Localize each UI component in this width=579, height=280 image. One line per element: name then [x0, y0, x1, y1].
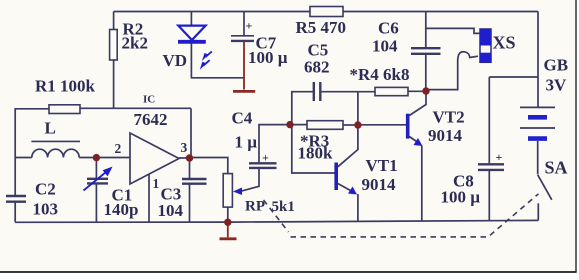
transistor VT1 emitter: [338, 184, 354, 193]
wire VT2 base: [358, 124, 406, 126]
white margin right of border: [577, 0, 579, 280]
white margin below border: [0, 273, 579, 280]
svg-text:1: 1: [153, 176, 160, 191]
wire R3 right lead: [343, 124, 358, 126]
wire VD top lead: [190, 12, 192, 26]
resistor R5 body: [310, 7, 343, 17]
svg-text:+: +: [496, 150, 503, 164]
wire C4 bottom lead to RP wiper: [241, 168, 259, 191]
wire switch bottom contact: [537, 203, 539, 220]
svg-text:7642: 7642: [134, 110, 168, 129]
svg-text:VD: VD: [163, 51, 188, 70]
svg-text:682: 682: [304, 58, 330, 77]
capacitor C1 variable arrow: [84, 168, 112, 191]
wire C1 top lead: [95, 158, 97, 179]
capacitor C8 plates: [478, 164, 504, 170]
wire top rail: [114, 11, 538, 13]
svg-text:VT1: VT1: [366, 156, 398, 175]
switch SA blade: [538, 175, 552, 200]
svg-text:R1 100k: R1 100k: [35, 77, 96, 96]
wire pin 1 down to ground rail: [148, 175, 150, 223]
wire battery bottom lead to switch: [537, 141, 539, 174]
wire R4 right lead: [408, 90, 426, 92]
resistor R4 body: [375, 87, 408, 95]
wire to XS jack top: [426, 28, 480, 33]
junction node D (R4/C6/VT2 collector/XS): [422, 87, 429, 94]
svg-text:C4: C4: [232, 109, 253, 128]
wire C6 bottom lead: [425, 54, 427, 91]
svg-text:L: L: [45, 119, 56, 138]
wire VT1 emitter down to rail: [357, 194, 359, 222]
wire C7 top lead: [243, 12, 245, 36]
svg-text:100 µ: 100 µ: [248, 48, 288, 67]
wire C8 top corner to battery line: [489, 76, 538, 78]
inductor L coil: [32, 149, 79, 157]
battery GB thick bars: [528, 117, 547, 138]
capacitor C2 plates: [6, 196, 26, 202]
transistor VT2 emitter: [409, 137, 419, 144]
svg-text:5k1: 5k1: [272, 199, 295, 215]
svg-text:IC: IC: [143, 94, 155, 106]
wire inductor branch left: [15, 157, 32, 159]
wire XS tip contact: [427, 52, 478, 90]
svg-text:GB: GB: [544, 56, 569, 75]
wire C6 top lead from rail: [425, 12, 427, 49]
wire left rail below C2: [14, 202, 16, 223]
svg-text:9014: 9014: [428, 126, 463, 145]
wire C1 bottom lead: [95, 183, 97, 222]
svg-text:1 µ: 1 µ: [235, 133, 258, 152]
wire R1 right lead: [80, 107, 114, 109]
junction node output pin3: [186, 154, 193, 161]
wire C8 bottom lead: [488, 170, 490, 221]
op-amp U1 triangle: [130, 133, 179, 184]
potentiometer RP body: [223, 174, 232, 208]
transistor VT2 collector: [409, 91, 426, 116]
svg-text:2k2: 2k2: [122, 34, 148, 53]
resistor R3 body: [307, 121, 343, 130]
wire VD cathode lead: [191, 44, 244, 78]
svg-text:+: +: [246, 19, 253, 33]
svg-text:XS: XS: [493, 33, 516, 53]
svg-text:C6: C6: [378, 19, 399, 38]
page border right: [575, 0, 577, 272]
svg-text:+: +: [262, 151, 269, 165]
XS jack body: [480, 29, 491, 62]
wire C4 top lead to node B: [259, 125, 290, 164]
svg-text:104: 104: [372, 37, 398, 56]
wire R2 top lead: [113, 12, 115, 30]
capacitor C3 plates: [182, 179, 207, 184]
svg-text:SA: SA: [545, 158, 568, 178]
LED VD light arrows: [206, 51, 212, 57]
svg-text:2: 2: [115, 141, 122, 156]
wire IC top horizontal: [114, 107, 191, 109]
capacitor C5 plates: [314, 82, 321, 101]
inductor L core line: [31, 140, 80, 142]
wire RP bottom lead: [227, 207, 229, 222]
transistor VT1 bar: [334, 163, 338, 191]
junction node C (R3/C5/VT2 base/VT1 collector): [354, 121, 361, 128]
wire C3 top lead: [189, 158, 191, 179]
wire VT2 emitter down to rail: [421, 146, 423, 221]
transistor VT1 collector: [338, 125, 358, 167]
wire pin 3 output: [179, 157, 190, 159]
wire output node to RP top: [190, 158, 228, 174]
svg-text:RP: RP: [245, 199, 265, 215]
wire R3 left lead: [290, 124, 307, 126]
junction node B (C4/R3/VT1 base): [286, 121, 293, 128]
svg-text:140p: 140p: [104, 200, 139, 219]
wire C5/R4 junction down to node C: [357, 92, 359, 125]
svg-text:3V: 3V: [546, 76, 568, 95]
ground at RP bottom (red lead and bar): [220, 222, 237, 239]
capacitor C6 plates: [411, 48, 441, 54]
wire C5 right lead to R4: [320, 91, 375, 93]
wire node B down to VT1 base: [292, 125, 335, 173]
svg-text:VT2: VT2: [433, 108, 465, 127]
resistor R1 body: [49, 105, 80, 114]
svg-text:104: 104: [158, 201, 184, 220]
svg-text:9014: 9014: [362, 175, 397, 194]
wire C8 top lead: [488, 77, 490, 164]
junction node RP bottom on rail: [224, 219, 231, 226]
ground at C7 (red lead and bar): [233, 41, 255, 91]
potentiometer RP wiper arrow head: [233, 188, 242, 196]
wire R2 bottom lead to R1/IC junction: [113, 60, 115, 108]
page border bottom: [0, 271, 577, 273]
transistor VT2 bar: [406, 114, 410, 139]
capacitor C1 plates: [87, 179, 108, 184]
svg-text:*R4 6k8: *R4 6k8: [350, 65, 410, 84]
resistor R2 body: [110, 30, 118, 61]
wire right side down from top rail: [537, 12, 539, 108]
svg-text:C2: C2: [35, 180, 56, 199]
capacitor C7 plates: [231, 35, 254, 37]
battery GB long plates: [520, 107, 555, 128]
LED VD symbol: [178, 26, 212, 66]
wire R1 left lead and left rail: [15, 109, 49, 196]
transistor VT2 emitter arrowhead: [414, 138, 423, 146]
svg-text:103: 103: [33, 200, 59, 219]
wire pin 2: [96, 157, 130, 159]
svg-text:3: 3: [181, 140, 188, 155]
dashed mechanical link RP to SA: [264, 194, 539, 237]
svg-text:180k: 180k: [298, 144, 334, 163]
junction node A (L/C1/pin2): [93, 154, 100, 161]
wire bottom ground rail: [15, 220, 538, 222]
wire C3 bottom lead: [189, 184, 191, 222]
svg-text:100 µ: 100 µ: [441, 188, 481, 207]
svg-text:R5 470: R5 470: [296, 18, 347, 37]
wire IC right vertical to output node: [190, 108, 192, 158]
capacitor C4 plates: [249, 163, 277, 168]
transistor VT1 emitter arrowhead: [348, 187, 357, 195]
wire C5 left lead: [292, 92, 314, 125]
wire inductor to node A: [79, 157, 96, 159]
